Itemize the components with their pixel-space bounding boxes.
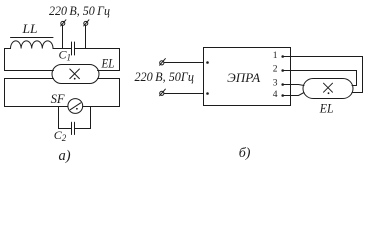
wire C2 branch left vertical (58, 107, 60, 129)
wire lower rail left to lamp (5, 78, 54, 80)
lamp EL (circuit b) (303, 79, 353, 99)
starter SF (glow switch) (68, 99, 83, 114)
wire pin 1 down right side (362, 57, 364, 93)
lamp EL (circuit a) (52, 65, 99, 84)
wire C1 to right corner (75, 48, 120, 50)
svg-text:1: 1 (273, 51, 278, 61)
node dot pin 2 (281, 69, 284, 72)
svg-text:C1: C1 (59, 48, 72, 63)
terminal X1 (circuit a, left) (61, 20, 66, 26)
node dot pin 1 (281, 55, 284, 58)
svg-text:SF: SF (51, 91, 66, 106)
wire upper rail lamp to right vertical (98, 70, 120, 72)
svg-text:EL: EL (101, 57, 115, 71)
inductor LL core bar (11, 37, 54, 39)
node dot pin 3 (281, 83, 284, 86)
svg-text:3: 3 (273, 78, 278, 88)
capacitor C1 (72, 42, 75, 55)
wire left vertical lower (circuit a) (4, 79, 6, 107)
svg-text:б): б) (239, 146, 251, 161)
node dot input 2 (inside EPRA) (206, 92, 209, 95)
terminal X3 (circuit b, upper) (160, 59, 166, 66)
wire C2 branch right vertical (90, 107, 92, 129)
wire terminal X4 to EPRA box (164, 93, 204, 95)
svg-text:EL: EL (319, 101, 334, 116)
wire pin 4 to lamp lower-left pin (283, 93, 304, 96)
wire lower rail lamp to right vertical (98, 78, 120, 80)
wire pin 3 to lamp upper-left pin (283, 85, 304, 86)
wire pin 1 to lamp lower-right pin (352, 92, 363, 94)
node dot pin 4 (281, 94, 284, 97)
wire bottom rail left to starter (5, 106, 69, 108)
wire pin 1 horizontal (283, 56, 363, 58)
svg-text:220 В, 50Гц: 220 В, 50Гц (134, 70, 194, 84)
wire left vertical upper (circuit a) (4, 49, 6, 71)
svg-text:4: 4 (273, 90, 278, 100)
ballast unit EPRA box (204, 48, 291, 106)
wire pin 2 horizontal (283, 70, 357, 72)
wire upper rail left to lamp (5, 70, 54, 72)
wire from terminal X1 down to top wire (62, 25, 64, 48)
terminal X4 (circuit b, lower) (160, 89, 166, 96)
svg-text:2: 2 (273, 65, 278, 75)
wire terminal X3 to EPRA box (164, 62, 204, 64)
svg-text:а): а) (59, 148, 71, 164)
wire pin 2 down to lamp upper-right pin (356, 71, 358, 86)
wire bottom rail starter to right vertical (83, 106, 120, 108)
wire pin 2 stub to lamp (352, 85, 357, 87)
wire C2 branch bottom right (75, 128, 91, 130)
wire from terminal X2 down to top wire (85, 25, 87, 48)
svg-text:LL: LL (21, 22, 37, 36)
wire C2 branch bottom left (59, 128, 72, 130)
svg-text:220 В, 50 Гц: 220 В, 50 Гц (49, 4, 110, 18)
svg-text:C2: C2 (54, 128, 67, 143)
wire right vertical lower (circuit a) (119, 79, 121, 107)
wire right vertical upper (circuit a) (119, 49, 121, 71)
capacitor C2 (72, 122, 75, 134)
inductor LL winding (11, 41, 54, 49)
terminal X2 (circuit a, right) (84, 20, 89, 26)
wire top-left segment (5, 48, 11, 50)
svg-text:ЭПРА: ЭПРА (227, 70, 260, 85)
wire inductor to C1 (53, 48, 72, 50)
node dot input 1 (inside EPRA) (206, 61, 209, 64)
